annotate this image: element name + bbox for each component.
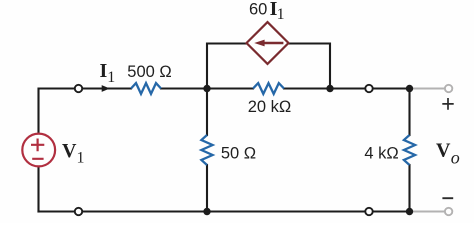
svg-text:1: 1 <box>77 149 85 166</box>
svg-text:I: I <box>100 60 108 82</box>
open terminal mid right bottom <box>365 208 372 215</box>
wire middle branch lower <box>206 165 208 212</box>
plus sign output <box>442 98 453 110</box>
wire right branch upper (to 4k) <box>408 89 410 136</box>
wire left vertical top (V1 to main node) <box>39 89 79 134</box>
resistor 500 ohm <box>131 83 161 94</box>
gray output terminal top <box>445 85 452 92</box>
svg-text:V: V <box>436 139 451 161</box>
svg-text:50 Ω: 50 Ω <box>221 145 256 163</box>
gray lead top right <box>410 87 445 89</box>
gray lead bottom right <box>410 210 445 212</box>
wire middle branch (node A down through 50ohm to bottom rail) <box>206 89 208 136</box>
node E (bottom rail / 4k) <box>406 208 413 215</box>
wire left vertical bottom (V1 to bottom rail) <box>37 166 39 211</box>
svg-text:o: o <box>451 148 460 168</box>
open terminal top left <box>75 85 82 92</box>
resistor 4 kohm <box>404 135 415 165</box>
wire right branch lower <box>408 165 410 212</box>
svg-text:60: 60 <box>249 1 267 19</box>
wire top branch right side <box>289 44 331 89</box>
wire main rail segment (terminal to 500ohm) <box>79 87 132 89</box>
dependent source arrow <box>254 40 283 47</box>
wire main rail segment (20k to right node) <box>284 87 410 89</box>
svg-text:500 Ω: 500 Ω <box>127 63 171 81</box>
current arrow I1 <box>102 85 110 92</box>
node C (junction main/4k) <box>406 85 413 92</box>
svg-text:4 kΩ: 4 kΩ <box>364 145 398 163</box>
dependent current source 60I1 (diamond) <box>247 22 289 64</box>
svg-text:1: 1 <box>277 6 285 23</box>
svg-text:20 kΩ: 20 kΩ <box>248 98 292 116</box>
node B (junction main/top branch right) <box>326 85 333 92</box>
resistor 50 ohm <box>201 135 212 165</box>
resistor 20 kohm <box>253 83 284 94</box>
minus sign output <box>442 197 453 199</box>
wire bottom rail <box>39 210 410 212</box>
node A (junction main/50ohm/top branch) <box>203 85 210 92</box>
wire main rail segment (500ohm to node A) <box>161 87 253 89</box>
open terminal mid right top <box>365 85 372 92</box>
wire top branch (left riser, top run, right riser) <box>207 44 247 89</box>
open terminal bottom left <box>75 208 82 215</box>
gray output terminal bottom <box>445 208 452 215</box>
voltage source V1 <box>22 134 55 167</box>
svg-text:V: V <box>62 140 77 162</box>
svg-text:1: 1 <box>107 69 115 86</box>
node D (bottom rail / 50ohm) <box>203 208 210 215</box>
